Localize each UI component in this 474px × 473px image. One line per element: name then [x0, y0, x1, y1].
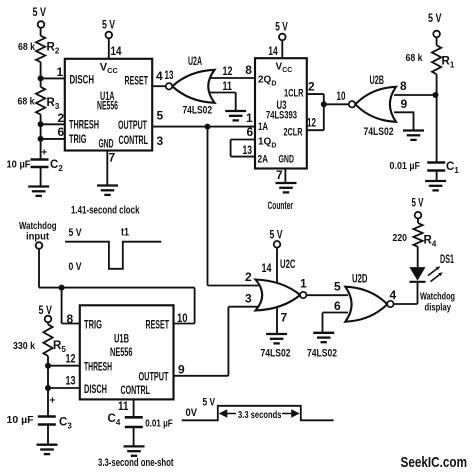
svg-text:OUTPUT: OUTPUT [139, 371, 169, 383]
svg-text:7: 7 [276, 168, 283, 182]
svg-text:0.01 µF: 0.01 µF [145, 418, 173, 430]
svg-text:U2D: U2D [352, 274, 368, 286]
svg-text:5 V: 5 V [69, 227, 83, 239]
svg-text:display: display [425, 302, 452, 314]
svg-text:3.3 seconds: 3.3 seconds [238, 409, 282, 421]
svg-text:NE556: NE556 [97, 100, 118, 112]
svg-text:8: 8 [400, 79, 407, 93]
svg-text:U2A: U2A [188, 56, 202, 68]
svg-text:t1: t1 [121, 227, 129, 239]
svg-text:5 V: 5 V [275, 22, 288, 34]
svg-text:14: 14 [268, 46, 278, 58]
svg-text:68 k: 68 k [18, 96, 35, 108]
svg-text:GND: GND [99, 139, 114, 151]
svg-text:1: 1 [300, 277, 307, 291]
svg-text:1A: 1A [258, 121, 268, 133]
svg-text:0V: 0V [186, 407, 198, 419]
svg-text:U2B: U2B [370, 75, 385, 87]
svg-text:RESET: RESET [125, 75, 149, 87]
svg-text:RESET: RESET [146, 320, 170, 332]
svg-text:0 V: 0 V [69, 261, 83, 273]
svg-text:3: 3 [245, 292, 252, 306]
svg-text:input: input [26, 230, 49, 242]
svg-text:2: 2 [58, 111, 65, 125]
svg-text:13: 13 [165, 68, 174, 82]
svg-text:3: 3 [157, 134, 164, 148]
svg-text:11: 11 [118, 401, 129, 413]
svg-text:13: 13 [66, 376, 76, 388]
svg-text:OUTPUT: OUTPUT [118, 120, 147, 132]
svg-text:5 V: 5 V [428, 13, 442, 25]
svg-text:1: 1 [57, 65, 64, 79]
svg-text:11: 11 [223, 81, 233, 93]
svg-text:12: 12 [307, 118, 316, 130]
svg-text:DS1: DS1 [440, 254, 454, 266]
svg-text:6: 6 [247, 125, 254, 139]
svg-text:1: 1 [246, 111, 253, 125]
svg-text:14: 14 [111, 46, 123, 58]
svg-text:68 k: 68 k [406, 52, 423, 64]
svg-text:10 µF: 10 µF [7, 414, 35, 426]
svg-text:13: 13 [243, 143, 253, 157]
svg-text:DISCH: DISCH [84, 384, 107, 396]
svg-text:220: 220 [393, 232, 408, 244]
svg-text:2CLR: 2CLR [284, 126, 303, 138]
svg-text:5 V: 5 V [412, 198, 424, 210]
svg-text:GND: GND [279, 154, 295, 166]
svg-text:74LS02: 74LS02 [307, 348, 337, 360]
svg-text:CONTRL: CONTRL [121, 385, 151, 397]
svg-text:5 V: 5 V [102, 20, 115, 32]
svg-text:SeekIC.com: SeekIC.com [401, 454, 468, 471]
svg-text:8: 8 [245, 63, 252, 77]
svg-text:7: 7 [281, 311, 288, 325]
svg-text:10: 10 [337, 91, 346, 103]
svg-text:Counter: Counter [268, 200, 294, 212]
svg-text:74LS02: 74LS02 [261, 348, 291, 360]
svg-text:14: 14 [262, 263, 272, 275]
svg-text:74LS02: 74LS02 [364, 126, 394, 138]
svg-text:THRESH: THRESH [69, 120, 99, 132]
svg-text:5: 5 [157, 109, 164, 123]
svg-text:5 V: 5 V [33, 7, 47, 19]
svg-text:68 k: 68 k [18, 41, 35, 53]
svg-text:74LS393: 74LS393 [266, 109, 297, 121]
svg-text:4: 4 [390, 288, 397, 302]
svg-text:5: 5 [334, 280, 341, 294]
svg-text:TRIG: TRIG [84, 320, 102, 332]
svg-text:+: + [50, 396, 56, 407]
svg-text:4: 4 [156, 69, 163, 83]
svg-text:6: 6 [334, 299, 341, 313]
svg-text:U2C: U2C [280, 259, 296, 271]
svg-text:10 µF: 10 µF [7, 159, 32, 171]
svg-text:2A: 2A [258, 154, 269, 166]
svg-text:5 V: 5 V [270, 230, 283, 242]
svg-text:TRIG: TRIG [69, 134, 87, 146]
svg-text:2: 2 [245, 270, 252, 284]
svg-text:0.01 µF: 0.01 µF [390, 160, 421, 172]
svg-text:10: 10 [177, 313, 188, 325]
svg-text:3.3-second one-shot: 3.3-second one-shot [98, 457, 174, 469]
svg-text:NE556: NE556 [110, 347, 133, 359]
svg-text:2: 2 [308, 80, 315, 94]
svg-text:74LS02: 74LS02 [183, 105, 213, 117]
svg-text:1.41-second clock: 1.41-second clock [71, 204, 140, 216]
svg-text:330 k: 330 k [13, 340, 35, 352]
svg-text:5 V: 5 V [203, 397, 216, 409]
svg-text:+: + [41, 147, 47, 158]
svg-text:6: 6 [58, 125, 65, 139]
svg-text:5 V: 5 V [39, 305, 53, 317]
svg-text:7: 7 [109, 151, 116, 165]
svg-text:DISCH: DISCH [70, 75, 95, 87]
svg-text:12: 12 [223, 66, 233, 78]
svg-text:8: 8 [67, 312, 74, 326]
svg-text:CONTRL: CONTRL [119, 135, 149, 147]
svg-text:U1B: U1B [114, 333, 129, 345]
svg-text:9: 9 [178, 363, 185, 377]
svg-text:12: 12 [66, 353, 76, 365]
svg-text:9: 9 [401, 97, 408, 111]
svg-text:1CLR: 1CLR [284, 88, 304, 100]
svg-text:THRESH: THRESH [84, 362, 112, 374]
